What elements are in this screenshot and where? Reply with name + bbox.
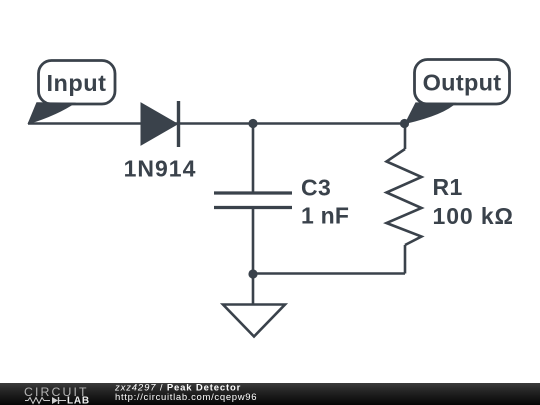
- footer bar: [0, 383, 540, 405]
- ground: [223, 305, 285, 337]
- svg-text:100 kΩ: 100 kΩ: [433, 203, 514, 229]
- wire: node A down to capacitor C3 top plate: [252, 124, 255, 194]
- diode D1 (anode triangle + cathode bar): [141, 101, 179, 147]
- svg-text:C3: C3: [301, 175, 331, 201]
- wire: capacitor C3 bottom plate down to ground: [252, 208, 255, 305]
- CircuitLab logo: [24, 385, 90, 405]
- wire: input terminal to diode anode and on to node A: [28, 122, 404, 125]
- node C junction dot (output node): [400, 119, 409, 128]
- node label callout: Output: [405, 60, 510, 125]
- node A junction dot: [248, 119, 257, 128]
- svg-text:1N914: 1N914: [124, 156, 197, 182]
- svg-text:R1: R1: [433, 174, 463, 200]
- svg-text:http://circuitlab.com/cqepw96: http://circuitlab.com/cqepw96: [115, 392, 257, 403]
- node B junction dot (bottom rail): [248, 269, 257, 278]
- wire: resistor R1 bottom lead: [404, 245, 407, 274]
- resistor R1 zigzag body: [387, 149, 422, 245]
- capacitor C3 plates: [214, 193, 292, 208]
- svg-text:LAB: LAB: [67, 396, 90, 405]
- node label callout: Input: [28, 61, 116, 125]
- svg-text:1 nF: 1 nF: [301, 203, 349, 229]
- svg-text:Output: Output: [423, 70, 502, 96]
- svg-text:Input: Input: [47, 70, 107, 96]
- wire: node C (output) down to resistor R1 top: [404, 124, 407, 150]
- wire: bottom rail from node B to resistor R1 bottom lead: [253, 272, 405, 275]
